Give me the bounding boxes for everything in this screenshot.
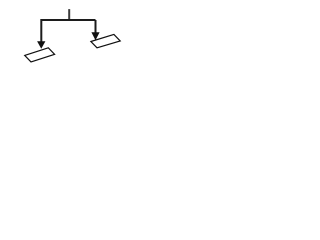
wire: elbow connector left branch <box>41 20 95 42</box>
arrowhead right <box>91 32 99 40</box>
parallelogram node right <box>91 34 120 47</box>
arrowhead left <box>37 41 45 49</box>
wire: elbow connector right branch <box>95 20 97 33</box>
parallelogram node left <box>25 48 55 62</box>
wire: top tick stub <box>68 9 70 20</box>
